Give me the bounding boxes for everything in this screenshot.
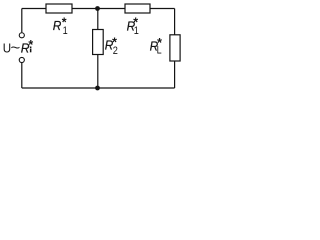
svg-text:*: * xyxy=(112,35,117,49)
svg-text:*: * xyxy=(28,38,33,52)
svg-text:~: ~ xyxy=(11,40,21,56)
svg-text:*: * xyxy=(133,15,138,29)
svg-text:R: R xyxy=(53,19,62,33)
svg-text:*: * xyxy=(62,15,67,29)
svg-text:*: * xyxy=(157,36,162,50)
